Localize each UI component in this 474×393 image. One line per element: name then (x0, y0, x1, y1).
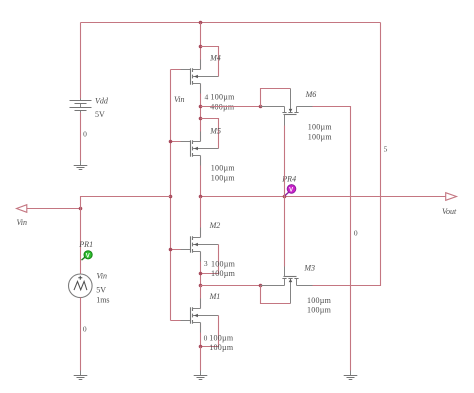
node junction net at M3 drain (259, 284, 263, 288)
transistor M5 (181, 132, 219, 166)
wire VDD top rail (81, 22, 381, 24)
svg-text:100µm: 100µm (211, 259, 236, 268)
transistor M2 (181, 228, 219, 262)
node junction rail at feedback column (283, 195, 287, 199)
wire M2 body tie loop (201, 245, 219, 274)
wire net 4 vertical M4 source to M5 drain (200, 84, 202, 142)
svg-text:100µm: 100µm (211, 93, 236, 102)
wire M3 body tie loop (261, 286, 291, 304)
wire M3 drain link grey (261, 285, 285, 287)
wire source to ground (80, 298, 82, 371)
svg-text:0: 0 (83, 325, 87, 334)
node junction M5 body tie (199, 117, 203, 121)
wire M5 source to output rail (200, 156, 202, 197)
wire M3 source to net 5 (297, 285, 313, 287)
port input arrow Vin (17, 205, 27, 213)
wire input net Vin gate column (171, 70, 187, 321)
battery Vdd (70, 99, 92, 113)
probe PR4 (285, 185, 296, 196)
probe PR1 (82, 251, 93, 260)
svg-text:Vout: Vout (442, 207, 457, 216)
svg-text:100µm: 100µm (307, 306, 332, 315)
wire M2 drain from rail (200, 197, 202, 238)
wire M4 body tie loop (201, 47, 219, 77)
AC source Vin (69, 274, 93, 298)
svg-text:M1: M1 (209, 292, 221, 301)
svg-text:100µm: 100µm (211, 173, 236, 182)
svg-text:100µm: 100µm (209, 343, 234, 352)
transistor M3 rotated (282, 267, 298, 304)
svg-text:M5: M5 (209, 126, 221, 135)
wire M1 source down (200, 323, 202, 347)
svg-text:Vdd: Vdd (95, 97, 109, 106)
svg-text:V: V (86, 254, 90, 260)
wire M2 source down (200, 252, 202, 286)
node junction M1 body tie (199, 345, 203, 349)
node junction M2 body tie (199, 272, 203, 276)
svg-text:100µm: 100µm (211, 269, 236, 278)
ground M1 (194, 371, 208, 380)
svg-text:M3: M3 (303, 263, 315, 272)
node junction top rail at M4 drain (199, 21, 203, 25)
svg-text:0: 0 (354, 229, 358, 238)
transistor M4 (181, 60, 219, 94)
wire M1 source to ground (200, 347, 202, 371)
wire input port stub (27, 208, 81, 210)
svg-text:M4: M4 (209, 54, 221, 63)
transistor M1 (181, 299, 219, 333)
svg-text:1ms: 1ms (96, 296, 109, 305)
node junction input stub (79, 207, 83, 211)
svg-text:100µm: 100µm (308, 132, 333, 141)
node junction net between M1 and M2 (199, 284, 203, 288)
svg-text:5: 5 (384, 144, 388, 153)
wire M6 source to ground column (297, 107, 351, 371)
ground right (344, 371, 358, 380)
wire feedback gate column M6 M3 (284, 126, 286, 267)
svg-text:Vin: Vin (174, 95, 185, 104)
wire net M1/M2 to M3 (201, 285, 261, 287)
svg-text:5V: 5V (95, 110, 105, 119)
node junction net 4 (199, 105, 203, 109)
svg-text:0: 0 (204, 333, 208, 342)
port output arrow Vout (446, 193, 457, 201)
wire battery to ground (80, 113, 82, 162)
svg-text:100µm: 100µm (209, 333, 234, 342)
wire Vdd battery to top rail (80, 23, 82, 99)
svg-text:5V: 5V (96, 286, 106, 295)
svg-text:0: 0 (83, 130, 87, 139)
svg-text:3: 3 (204, 259, 208, 268)
svg-text:100µm: 100µm (307, 296, 332, 305)
svg-text:Vin: Vin (17, 218, 28, 227)
wire M1 drain (200, 286, 202, 309)
transistor M6 rotated (282, 89, 298, 126)
svg-text:PR1: PR1 (78, 240, 93, 249)
wire M5 body tie loop (201, 119, 219, 149)
svg-text:M2: M2 (209, 221, 221, 230)
node junction rail at M5 source (199, 195, 203, 199)
ground source (74, 371, 88, 380)
svg-text:PR4: PR4 (281, 175, 296, 184)
ground battery (74, 161, 88, 170)
wire input riser (81, 197, 171, 275)
svg-text:4: 4 (205, 93, 209, 102)
wire net 4 horizontal to M6 (201, 106, 261, 108)
node junction Vin at M2 gate (169, 248, 173, 252)
wire M1 body tie loop (201, 316, 219, 347)
wire output rail (201, 196, 446, 198)
node junction M4 body tie (199, 45, 203, 49)
svg-text:100µm: 100µm (308, 123, 333, 132)
node junction net 4 at M6 drain (259, 105, 263, 109)
svg-text:V: V (289, 188, 293, 194)
node junction Vin at M5 gate (169, 140, 173, 144)
wire M4 drain (200, 23, 202, 70)
wire M6 drain link grey (261, 106, 285, 108)
wire net 5 right drop (313, 23, 381, 286)
svg-text:100µm: 100µm (211, 164, 236, 173)
svg-text:M6: M6 (305, 90, 317, 99)
svg-text:Vin: Vin (97, 272, 108, 281)
node junction Vin at left rail (169, 195, 173, 199)
wire M6 body tie loop (261, 89, 291, 107)
